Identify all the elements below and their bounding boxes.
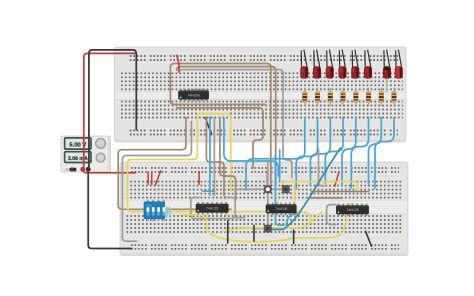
IC U3 74HC08 (AND): [266, 203, 296, 216]
LED D3: [326, 50, 333, 79]
resistor R1 330 ohm: [303, 88, 308, 107]
wire yellow bottom loop: [183, 215, 291, 242]
wire gray drop right: [319, 149, 325, 186]
wire yellow inner band: [222, 212, 322, 232]
wire brown parallel over U1 to BB2: [177, 67, 276, 186]
wire blue hook near U3: [275, 155, 284, 225]
svg-text:74HC32: 74HC32: [206, 207, 219, 211]
resistor R4 330 ohm: [341, 88, 346, 107]
wire gray loop around U2: [191, 197, 235, 218]
LED D5: [352, 50, 359, 79]
wire gray ring3 stub: [252, 228, 264, 230]
wire gray BB1 to BB2 bottom rail: [122, 122, 191, 242]
wire blue drop near U3: [279, 150, 281, 181]
wire gray stub right of U2: [235, 217, 244, 219]
wire blue curve left of U3: [286, 214, 297, 227]
svg-text:ON: ON: [147, 203, 152, 207]
wire brown BB1 to BB2 left drop: [118, 118, 231, 210]
LED D8: [395, 50, 402, 79]
wire red PS1+ to BB1 top rail: [84, 53, 135, 168]
wire brown row link right 2: [312, 197, 343, 199]
wire yellow bridge leg: [294, 182, 296, 216]
wire red rail jumper 3: [156, 171, 161, 185]
resistor R3 330 ohm: [328, 88, 333, 107]
wire yellow band with U-bridge: [128, 113, 311, 223]
wire red PS1+ to BB2 top rail: [83, 169, 136, 173]
IC U4 74HC08 (AND): [336, 204, 368, 217]
wire red rail jumper 6: [266, 173, 268, 190]
wire gray drop to ring1: [267, 162, 269, 186]
wire black jumper BB1 row to rail: [205, 118, 211, 135]
wire lightblue stub b: [169, 207, 171, 219]
wire blue mid drop B: [209, 118, 211, 196]
wire brown C around U1: [170, 64, 270, 186]
wire gray ring1 to ring2: [271, 188, 282, 190]
wire black jumper BB2 b: [253, 226, 255, 242]
PS1 current knob: [96, 153, 105, 162]
wire black PS1- to BB1 vertical bus: [89, 50, 136, 169]
wire red rail jumper 1: [147, 172, 149, 185]
wire black jumper BB2 a: [227, 221, 229, 243]
node ring J2: [282, 185, 290, 193]
wire gray to node ring1: [237, 188, 264, 190]
LED D6: [364, 50, 371, 79]
DIP switch S1 (4 position): [144, 200, 165, 221]
op IC U1 74HC86 (XOR): [179, 89, 209, 102]
wire gray along U1 top to BB2: [179, 70, 292, 178]
LED D7 lead bend: [384, 67, 388, 71]
node ring J3: [264, 225, 272, 233]
node ring J1: [264, 185, 272, 193]
wire blue Q5 output to BB2: [342, 118, 356, 187]
svg-text:74HC86: 74HC86: [187, 93, 200, 97]
wire yellow right bridge: [282, 182, 358, 191]
resistor R8 330 ohm: [392, 88, 397, 107]
wire red VCC jumper U1: [177, 56, 179, 72]
IC U2 74HC32 (OR): [196, 202, 228, 215]
PS1 positive terminal: [81, 167, 85, 171]
wire blue Q7 output to BB2: [369, 118, 382, 187]
wire black jumper BB2 d: [366, 231, 372, 246]
wire blue row segment: [203, 190, 214, 192]
wire red rail jumper 2: [151, 172, 153, 185]
power supply PS1: [61, 136, 111, 172]
wire black jumper BB2 c: [293, 230, 295, 243]
wire blue Q2 output to BB2: [296, 118, 317, 190]
wire blue mid drop E: [224, 118, 278, 177]
LED D2: [313, 50, 320, 79]
svg-text:74HC08: 74HC08: [346, 208, 359, 212]
PS1 voltage knob: [96, 139, 106, 149]
wire lightblue stub a: [166, 207, 168, 219]
LED D4: [339, 50, 346, 79]
PS1 power switch: [65, 168, 68, 171]
wire blue Q6 output to BB2: [351, 118, 368, 189]
wire blue Q4 output to BB2: [325, 118, 343, 184]
LED D7: [383, 50, 390, 79]
wire gray mid drop C: [213, 118, 215, 196]
wire red rail jumper 4: [198, 172, 200, 185]
svg-text:74HC08: 74HC08: [275, 207, 288, 211]
breadboard BB2 (bottom): [120, 162, 408, 256]
PS1 current display 3.06 mA: [65, 152, 91, 163]
svg-text:3.06 mA: 3.06 mA: [68, 156, 88, 162]
PS1 negative terminal: [86, 167, 90, 171]
wire black PS1- to BB2 bottom rail: [88, 169, 131, 248]
breadboard BB1 (top): [115, 47, 407, 142]
wire gray ring1 to ring3: [267, 193, 269, 225]
wire brown row link right 1: [312, 191, 369, 193]
wire green column 7: [386, 71, 388, 92]
wire blue Q8 output to BB2: [375, 118, 394, 189]
wire red rail jumper 7: [335, 172, 339, 186]
wire blue Q3 output to BB2: [310, 118, 330, 187]
resistor R6 330 ohm: [366, 88, 371, 107]
wire gray clamp U4: [327, 205, 336, 225]
PS1 voltage display 5.00 V: [65, 138, 91, 149]
LED D1: [301, 50, 308, 79]
wire blue Q1 output to BB2: [246, 118, 305, 191]
resistor R5 330 ohm: [354, 88, 359, 107]
wire teal diagonal: [271, 148, 341, 229]
wire yellow right curl: [294, 204, 353, 238]
wire brown mid drop D: [220, 118, 236, 201]
resistor R2 330 ohm: [315, 88, 320, 107]
resistor R7 330 ohm: [379, 88, 384, 107]
wire brown mid drop A: [206, 118, 224, 197]
wire brown under U1 low to BB2: [177, 108, 263, 168]
